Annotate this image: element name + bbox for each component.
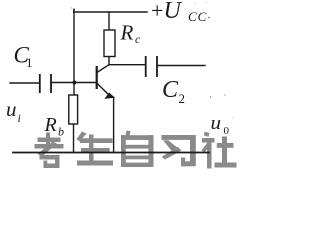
svg-text:b: b (58, 125, 64, 139)
resistor Rb body (69, 95, 78, 124)
wire left vertical (UCC to Rb) (73, 12, 75, 95)
svg-text:2: 2 (179, 91, 186, 106)
capacitor C1 plates (40, 74, 51, 93)
svg-text:CC: CC (188, 9, 207, 24)
svg-text:i: i (18, 111, 21, 125)
wire C1 to base (52, 82, 97, 84)
svg-text:+: + (151, 0, 163, 23)
wire Rb bottom (73, 124, 75, 153)
svg-text:0: 0 (224, 125, 230, 137)
wire collector diagonal (97, 65, 109, 73)
wire Rc top (108, 12, 110, 30)
watermark 习 (162, 135, 196, 166)
period after UCC (208, 17, 210, 19)
faint scan speckles (194, 3, 195, 4)
wire emitter diagonal (97, 83, 108, 94)
watermark 自 (121, 131, 154, 168)
svg-text:u: u (6, 99, 17, 121)
svg-text:c: c (135, 32, 141, 46)
resistor Rc body (104, 30, 115, 57)
wire bottom rail (13, 152, 209, 154)
svg-text:R: R (44, 114, 57, 136)
watermark 生 (77, 132, 114, 166)
svg-text:R: R (120, 21, 134, 45)
transistor Q1 bar (96, 66, 98, 89)
wire top rail (74, 11, 147, 13)
top-left corner tick (73, 10, 75, 13)
wire collector node to C2 (109, 64, 145, 66)
watermark 社 (202, 132, 237, 169)
capacitor C2 plates (146, 56, 157, 77)
wire Rc bottom (108, 57, 110, 65)
wire emitter vertical (113, 98, 115, 153)
wire output (157, 65, 205, 67)
svg-text:U: U (164, 0, 183, 24)
svg-text:u: u (211, 113, 222, 134)
node A junction dot (72, 81, 76, 85)
speck dots near C2 (210, 96, 211, 97)
watermark 考 (35, 133, 64, 169)
svg-text:1: 1 (26, 55, 33, 70)
wire input (10, 82, 39, 84)
svg-text:C: C (162, 77, 179, 103)
transistor Q1 emitter arrowhead (104, 93, 115, 99)
